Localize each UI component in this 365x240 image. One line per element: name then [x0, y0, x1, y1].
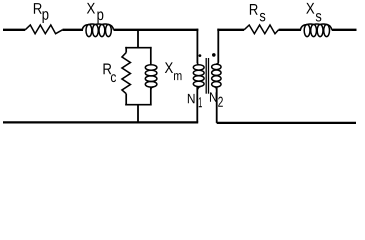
polarity dot secondary	[212, 53, 216, 57]
transformer core	[205, 58, 207, 94]
wire Xm bottom stub	[150, 87, 152, 106]
transformer secondary bottom lead	[216, 87, 218, 123]
label Rp	[34, 3, 49, 23]
label Xs	[306, 3, 321, 22]
wire between Rp and Xp	[63, 29, 84, 31]
resistor Rc	[122, 53, 130, 94]
inductor Xs	[300, 24, 331, 37]
inductor Xp	[82, 24, 113, 37]
label N1	[188, 94, 202, 107]
label N2	[210, 92, 223, 106]
transformer primary bottom lead	[196, 86, 198, 122]
label Rc	[103, 64, 116, 83]
resistor Rs	[244, 25, 279, 34]
wire Xm top stub	[150, 47, 152, 64]
wire shunt stub down from node	[137, 30, 139, 49]
polarity dot primary	[199, 54, 202, 57]
transformer winding N2	[212, 62, 221, 90]
transformer primary top lead	[196, 29, 198, 63]
wire top-left lead	[3, 29, 25, 31]
wire Rc top stub	[125, 47, 127, 53]
wire shunt box top	[125, 47, 151, 49]
wire bottom-right rail	[217, 122, 356, 124]
label Xm	[165, 62, 182, 80]
wire Xp to primary corner	[114, 29, 199, 31]
wire shunt box bottom	[125, 104, 151, 106]
label Rs	[250, 4, 265, 21]
wire Rc bottom stub	[125, 94, 127, 106]
transformer winding N1	[193, 62, 204, 89]
label Xp	[87, 3, 104, 23]
wire top-right lead	[332, 29, 357, 31]
wire top-right from secondary corner	[217, 29, 244, 31]
wire between Rs and Xs	[279, 29, 301, 31]
wire bottom-left rail	[3, 121, 198, 123]
inductor Xm	[145, 63, 157, 90]
wire shunt bottom stub	[137, 105, 139, 123]
transformer secondary top lead	[217, 29, 219, 63]
resistor Rp	[25, 25, 62, 34]
